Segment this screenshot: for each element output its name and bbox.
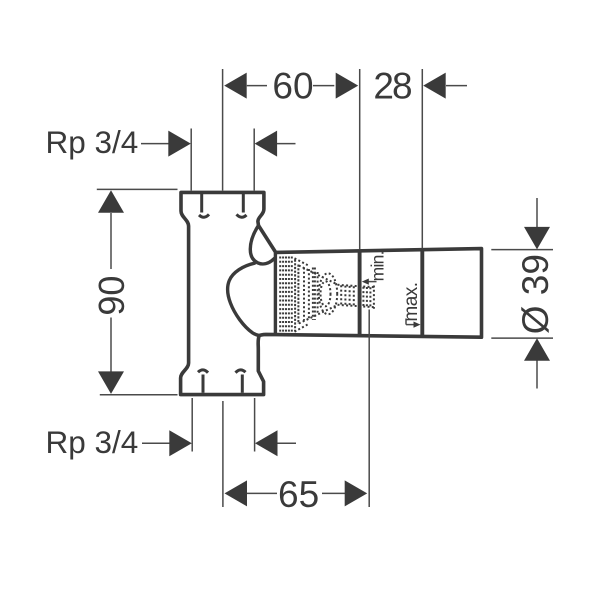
dim 65 line [246,492,277,494]
svg-text:90: 90 [91,276,132,316]
beak inner edge [250,226,274,264]
arrow 90 bottom [98,371,124,394]
arrows [98,73,550,507]
ext line pipe axis top [222,69,224,191]
arrow dia39 bottom [524,338,550,361]
arrow 60 left [224,73,247,99]
arrow Rp34 top left [168,131,191,157]
arrow dia39 top [524,227,550,250]
arrow 28 right [423,73,446,99]
valve body outline [181,192,482,394]
arrow 65 left [225,480,248,506]
thread hook bottom-left [198,370,208,393]
max line [420,249,424,336]
svg-text:65: 65 [278,474,319,515]
dim dia39 line [536,198,538,227]
svg-text:max.: max. [401,282,422,321]
arrow 65 right [345,480,368,506]
max leader [405,319,407,325]
arrow max [414,322,421,328]
ext line max top [421,69,423,248]
Rp34 bottom ext lines [191,398,193,452]
svg-text:Rp 3/4: Rp 3/4 [46,424,139,460]
Rp34 top leader [141,143,170,145]
svg-text:Ø 39: Ø 39 [515,254,556,334]
thread hook top-right [237,194,247,217]
arrow Rp34 top right [255,131,278,157]
dim 60 line segments [247,85,267,87]
arrow 60 right [336,73,359,99]
svg-text:Rp 3/4: Rp 3/4 [46,124,139,160]
min leader [368,281,377,283]
ext line min top [359,69,361,249]
thread hook top-left [199,194,209,217]
arrow Rp34 bottom left [169,430,192,456]
svg-text:28: 28 [373,65,411,106]
Rp34 bottom leader [142,442,171,444]
thread hook bottom-right [236,370,246,393]
housing left edge [274,253,277,334]
dim 90 ext lines [97,188,178,190]
arrow min [362,279,369,285]
dim 90 line [110,213,112,269]
min line [358,251,362,335]
thin dimension/extension lines [97,69,553,507]
waist curve [228,263,260,335]
arrow Rp34 bottom right [255,430,278,456]
cartridge hidden detail (dotted) [280,257,375,335]
svg-text:min.: min. [367,251,387,281]
dim 28 tail [446,85,467,87]
arrow 90 top [98,190,124,213]
dim 65 ext lines [222,401,224,507]
svg-text:60: 60 [272,65,313,106]
dim dia39 ext lines [491,249,553,251]
Rp34 top ext lines [190,129,192,191]
